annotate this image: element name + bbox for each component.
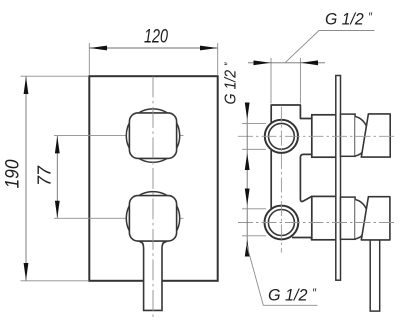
knob 2 circle — [126, 192, 179, 245]
port circle top outer — [265, 120, 298, 153]
knob1 centerline (horizontal) — [128, 135, 184, 137]
port circle bottom outer — [265, 206, 299, 240]
dim 190 arrow bottom — [24, 263, 29, 280]
dim 190 line — [25, 76, 27, 280]
svg-text:G 1/2 ″: G 1/2 ″ — [223, 62, 240, 105]
centerline top unit horizontal — [238, 135, 397, 137]
dim 77 arrow top — [55, 136, 60, 153]
valve body outline — [271, 105, 312, 240]
cartridge housing bottom — [312, 196, 337, 239]
dim 190 arrow top — [24, 77, 29, 94]
port circle top inner — [269, 123, 295, 149]
svg-text:120: 120 — [144, 27, 168, 48]
leader to bottom G12 label — [247, 244, 318, 305]
lever handle — [140, 241, 166, 311]
centerline ports vertical — [280, 107, 282, 253]
dim 120 arrow left — [90, 46, 107, 51]
handle knob bottom — [361, 197, 390, 240]
dome top — [355, 117, 368, 157]
knob2 centerline extension (horizontal) — [54, 217, 128, 219]
centerline bottom unit horizontal — [238, 222, 397, 224]
dim 190 extension line bottom — [21, 280, 89, 282]
dim G12 top ext line right — [299, 58, 301, 104]
adapter bottom — [341, 197, 356, 239]
ext line bottom unit inner top — [242, 208, 266, 210]
adapter top — [341, 114, 356, 156]
svg-text:G 1/2 ″: G 1/2 ″ — [325, 10, 373, 29]
outlet pipe — [370, 240, 380, 311]
arrow top unit upper — [245, 103, 250, 120]
arrow top unit lower — [245, 153, 250, 170]
handle knob top — [361, 114, 390, 157]
ext line bottom unit inner bottom — [242, 235, 266, 237]
knob 1 circle — [126, 109, 179, 162]
dim G12 top arrow left — [254, 60, 271, 65]
arrow bottom unit lower — [245, 239, 250, 256]
arrow bottom unit upper — [245, 189, 250, 206]
svg-text:190: 190 — [3, 159, 24, 188]
leader to top G12 label — [286, 31, 375, 63]
port circle bottom inner — [268, 210, 294, 236]
dim 190 extension line top — [21, 75, 89, 77]
wall plate (edge view) — [336, 76, 341, 281]
dim 120 extension line left — [88, 43, 90, 75]
knob2 centerline (horizontal) — [128, 217, 184, 219]
dim G12 top line — [248, 62, 325, 64]
dim G12 top ext line left — [270, 58, 272, 104]
dim 120 line — [89, 47, 217, 49]
svg-text:77: 77 — [35, 165, 55, 186]
dim G12 side vertical line — [246, 103, 248, 249]
dome bottom — [355, 200, 368, 240]
dim 77 arrow bottom — [55, 201, 60, 218]
ext line top unit inner bottom — [242, 148, 266, 150]
knob 2 square — [129, 196, 176, 242]
svg-text:G 1/2 ″: G 1/2 ″ — [268, 286, 317, 305]
dim 77 line — [56, 136, 58, 218]
cartridge housing top — [312, 115, 337, 157]
front plate rectangle — [89, 76, 217, 281]
dim 120 arrow right — [200, 46, 217, 51]
knob 1 square — [129, 113, 176, 158]
knobs vertical centerline — [152, 76, 154, 319]
knob1 centerline extension (horizontal) — [54, 135, 128, 137]
ext line top unit inner top — [242, 122, 266, 124]
dim G12 top arrow right — [301, 60, 318, 65]
dim 120 extension line right — [217, 43, 219, 75]
